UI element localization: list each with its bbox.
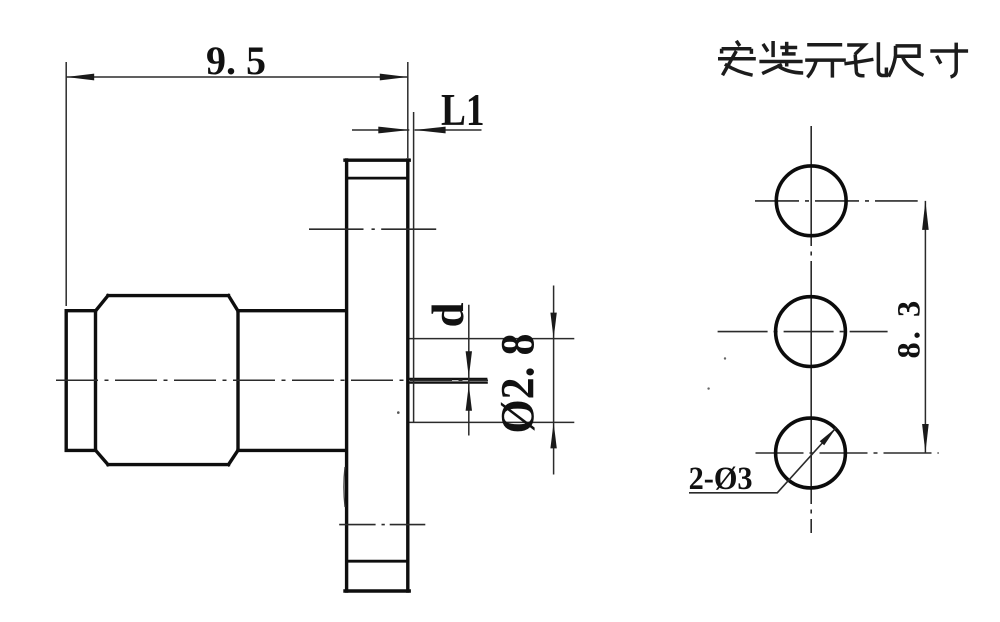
- dimension L1: [352, 112, 482, 422]
- glyph an: [718, 41, 756, 76]
- hole centerline 1: [755, 200, 918, 202]
- hole centerline 3: [756, 452, 939, 454]
- center pin: [409, 379, 488, 383]
- flange hole centerline top: [309, 228, 436, 230]
- title: an zhuang kai kong chi cun (hand-drawn glyphs): [718, 41, 968, 78]
- flange edge fillet arc: [344, 467, 345, 507]
- flange inner step lines: [348, 178, 406, 561]
- rear cylinder: [66, 311, 95, 451]
- glyph kong: [844, 42, 886, 75]
- svg-text:L1: L1: [441, 84, 485, 135]
- glyph chi: [889, 46, 924, 77]
- hex nut section: [96, 296, 239, 465]
- svg-text:9. 5: 9. 5: [206, 38, 266, 83]
- svg-text:d: d: [423, 302, 473, 327]
- svg-text:2-Ø3: 2-Ø3: [689, 461, 753, 497]
- hole centerline 2: [718, 331, 888, 333]
- mounting hole 1: [776, 166, 846, 236]
- dimension 9.5: [66, 62, 408, 306]
- stray speck: [397, 411, 400, 414]
- hole pattern vertical centerline: [810, 126, 812, 533]
- svg-text:8. 3: 8. 3: [892, 298, 928, 359]
- flange hole centerline bottom: [339, 524, 425, 526]
- stray specks right view: [724, 357, 726, 359]
- glyph kai: [805, 45, 846, 78]
- mounting hole 3: [776, 418, 846, 488]
- mounting hole 2: [776, 297, 846, 367]
- glyph cun: [930, 43, 968, 77]
- mid cylinder: [238, 311, 345, 451]
- dimension dia 2.8: [410, 286, 575, 475]
- connector body side view: [66, 160, 409, 591]
- flange: [345, 160, 409, 591]
- glyph zhuang: [759, 41, 803, 74]
- main axis centerline: [56, 379, 488, 381]
- svg-text:Ø2. 8: Ø2. 8: [492, 334, 545, 434]
- dimension d: [466, 305, 472, 436]
- dimension 8.3: [922, 201, 929, 453]
